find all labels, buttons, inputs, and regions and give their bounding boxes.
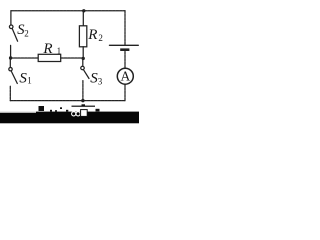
wire bottom: [10, 100, 125, 102]
svg-text:A: A: [121, 69, 131, 84]
wire middle right: [61, 57, 83, 59]
svg-text:1: 1: [57, 46, 62, 56]
battery positive plate: [110, 44, 139, 46]
resistor R2: [79, 26, 86, 47]
wire left to S1: [9, 58, 11, 67]
wire R2 bottom: [82, 47, 84, 57]
redaction band left step: [0, 112, 36, 113]
caption fragments above band: [39, 104, 100, 111]
svg-text:2: 2: [98, 33, 103, 43]
wire R2 top: [82, 11, 84, 26]
wire left upper: [10, 11, 12, 25]
wire battery top: [124, 11, 126, 45]
redaction band: [0, 112, 139, 124]
svg-text:1: 1: [27, 76, 32, 86]
caption glyph o1: [72, 112, 76, 116]
wire left mid: [10, 45, 12, 58]
node junction top: [82, 9, 85, 12]
wire left lower: [9, 86, 11, 100]
caption glyph o2: [76, 112, 80, 116]
resistor R1: [38, 54, 61, 61]
node junction left: [9, 56, 12, 59]
node junction bottom: [81, 99, 84, 102]
switch S1: [9, 68, 17, 84]
wire ammeter to battery: [124, 51, 126, 68]
svg-text:3: 3: [98, 77, 103, 87]
caption white box: [81, 110, 88, 117]
wire S3 bottom: [82, 81, 84, 101]
svg-text:R: R: [87, 27, 97, 43]
wire right lower: [124, 84, 126, 100]
wire top: [11, 10, 125, 12]
wire middle left: [11, 57, 38, 59]
wire S3 top: [82, 60, 84, 66]
switch S3: [81, 66, 89, 78]
node junction middle: [82, 57, 85, 60]
svg-text:S: S: [19, 70, 27, 86]
battery negative plate: [120, 48, 129, 51]
svg-text:R: R: [42, 41, 52, 57]
ammeter A: [117, 68, 133, 84]
svg-text:2: 2: [24, 28, 29, 38]
switch S2: [9, 25, 17, 41]
